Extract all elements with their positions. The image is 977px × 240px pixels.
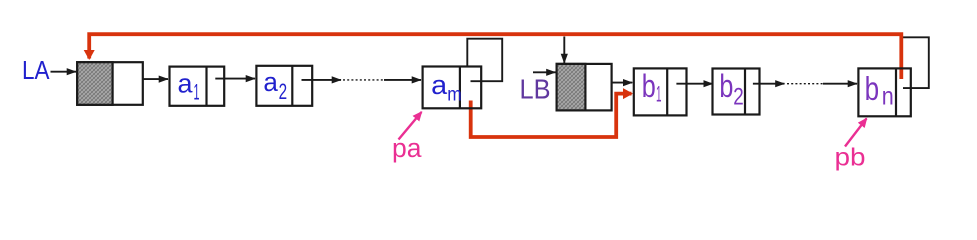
svg-text:LA: LA	[22, 57, 50, 85]
svg-text:1: 1	[656, 81, 662, 106]
svg-text:a: a	[431, 72, 448, 100]
svg-text:2: 2	[733, 83, 744, 110]
svg-text:2: 2	[279, 79, 288, 104]
svg-text:b: b	[719, 68, 733, 104]
svg-text:LB: LB	[520, 74, 551, 105]
svg-text:a: a	[263, 69, 278, 97]
svg-text:m: m	[447, 85, 462, 106]
svg-text:n: n	[882, 83, 894, 111]
svg-text:a: a	[178, 71, 194, 99]
svg-text:pa: pa	[392, 135, 422, 163]
svg-text:b: b	[865, 70, 880, 107]
svg-text:1: 1	[194, 79, 200, 104]
svg-text:b: b	[642, 68, 656, 104]
svg-text:pb: pb	[835, 144, 866, 172]
